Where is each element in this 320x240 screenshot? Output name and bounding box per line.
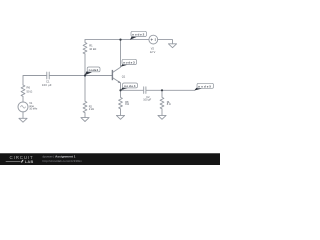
- wire V1 to ground: [22, 112, 24, 119]
- svg-text:dpower | Assignment 1: dpower | Assignment 1: [43, 155, 76, 159]
- svg-text:8 Ω: 8 Ω: [167, 103, 171, 106]
- wire top rail: [85, 39, 149, 41]
- svg-text:V2: V2: [151, 46, 155, 50]
- ground V2: [168, 44, 176, 48]
- svg-text:100 µF: 100 µF: [143, 99, 151, 102]
- svg-text:8 Ω: 8 Ω: [125, 103, 129, 106]
- svg-text:node2: node2: [132, 33, 145, 37]
- node flag collector: [121, 59, 137, 67]
- svg-text:C1: C1: [46, 80, 50, 84]
- svg-text:R1: R1: [89, 44, 93, 48]
- node flag emitter: [121, 83, 138, 90]
- svg-text:http://circuitlab.com/czz339tm: http://circuitlab.com/czz339tm: [43, 159, 83, 163]
- source V2 minus bar: [154, 38, 156, 41]
- svg-text:100 µF: 100 µF: [42, 83, 52, 87]
- wire input left segment: [23, 76, 112, 86]
- svg-text:10 kΩ: 10 kΩ: [89, 47, 96, 51]
- node flag supply: [130, 31, 147, 40]
- node flag output: [194, 83, 214, 90]
- resistor R6: [21, 85, 25, 102]
- svg-text:node1: node1: [89, 68, 99, 72]
- svg-text:node4: node4: [124, 84, 136, 88]
- source V1: [18, 102, 28, 112]
- footer bar: [0, 153, 220, 165]
- resistor RL: [160, 90, 164, 115]
- wire output rail: [121, 89, 195, 91]
- svg-text:50 Ω: 50 Ω: [27, 90, 33, 94]
- transistor Q1 emitter: [113, 78, 121, 91]
- source V2 plus symbol: [151, 39, 153, 41]
- svg-text:CIRCUIT: CIRCUIT: [10, 155, 34, 160]
- svg-text:node5: node5: [198, 84, 212, 88]
- svg-text:LAB: LAB: [25, 160, 34, 164]
- node flag base: [85, 67, 100, 75]
- svg-text:Q1: Q1: [122, 75, 126, 79]
- wire R1 to base node: [84, 54, 86, 76]
- source V2: [149, 35, 158, 44]
- ground V1: [19, 118, 27, 122]
- resistor R8: [119, 90, 123, 115]
- transistor Q1 base bar: [111, 70, 113, 80]
- svg-text:10 kHz: 10 kHz: [29, 107, 38, 111]
- junction node at top rail: [119, 39, 121, 41]
- svg-text:node3: node3: [123, 61, 135, 65]
- resistor R1: [83, 40, 87, 54]
- junction node at emitter: [119, 89, 121, 91]
- capacitor C2: [144, 87, 146, 94]
- ground RL: [158, 115, 166, 119]
- wire V2 to ground: [158, 40, 173, 44]
- transistor Q1 collector: [113, 40, 121, 73]
- svg-text:1 kΩ: 1 kΩ: [89, 108, 94, 111]
- ground R8: [116, 115, 124, 119]
- svg-text:12 V: 12 V: [150, 50, 156, 54]
- junction node at load: [161, 89, 163, 91]
- junction node at base: [84, 74, 86, 76]
- svg-text:R6: R6: [27, 85, 31, 89]
- transistor Q1 emitter arrow: [118, 81, 121, 83]
- capacitor C1: [47, 72, 49, 79]
- resistor R2: [83, 76, 87, 118]
- ground R2: [81, 118, 89, 122]
